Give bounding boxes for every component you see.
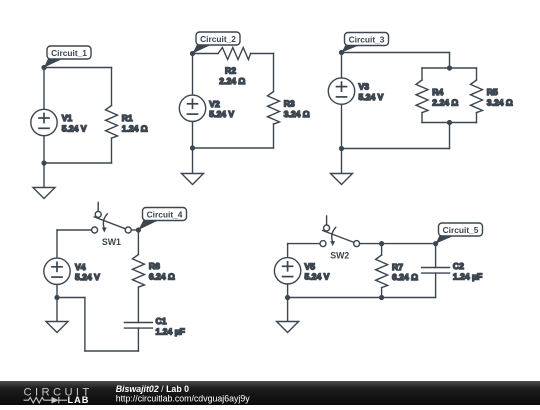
label R4 [432, 87, 443, 97]
wire parallel bottom bar [422, 122, 477, 124]
resistor R7 [376, 244, 388, 298]
svg-text:C1: C1 [156, 316, 167, 326]
junction bottom-left circuit3 [339, 146, 344, 151]
label V3 [359, 82, 370, 92]
value 5.24 V [75, 272, 100, 282]
node label Circuit_1 [44, 46, 91, 68]
svg-text:6.24 Ω: 6.24 Ω [392, 272, 418, 282]
wire top circuit1 [44, 67, 112, 69]
value 5.24 V [305, 272, 330, 282]
resistor R4 [416, 68, 428, 123]
svg-text:5.24 V: 5.24 V [305, 272, 330, 282]
wire bottom circuit5 [288, 297, 436, 299]
node label Circuit_4 [138, 208, 186, 231]
junction bottom-left circuit1 [41, 160, 46, 165]
svg-text:R5: R5 [487, 87, 498, 97]
voltage source V2 [179, 54, 205, 149]
voltage source V1 [31, 68, 57, 164]
svg-text:Circuit_4: Circuit_4 [147, 209, 183, 219]
label V5 [305, 261, 316, 271]
label R6 [149, 261, 160, 271]
svg-text:R1: R1 [122, 113, 133, 123]
capacitor C2 [422, 244, 450, 298]
voltage source V4 [44, 230, 70, 298]
wire V5 to switch [288, 243, 320, 245]
wire switch to R7 C2 [360, 243, 436, 245]
wire return path circuit4 [57, 298, 138, 352]
wire top-right circuit2 [251, 54, 274, 92]
svg-text:Circuit_3: Circuit_3 [349, 34, 385, 44]
svg-text:LAB: LAB [68, 395, 90, 405]
junction top-left circuit2 [190, 51, 195, 56]
svg-text:V4: V4 [75, 262, 86, 272]
value 3.24 Ω [487, 97, 513, 107]
wire top-left circuit2 [193, 53, 219, 55]
svg-text:V5: V5 [305, 261, 316, 271]
svg-text:SW2: SW2 [330, 250, 349, 260]
svg-text:V1: V1 [62, 113, 73, 123]
svg-text:2.24 Ω: 2.24 Ω [432, 97, 458, 107]
resistor R6 [132, 230, 144, 323]
junction parallel bottom [447, 120, 452, 125]
value 5.24 V [62, 123, 87, 133]
ground circuit3 [331, 149, 353, 185]
wire V4 to switch [57, 229, 92, 231]
svg-text:5.24 V: 5.24 V [209, 109, 234, 119]
svg-text:3.24 Ω: 3.24 Ω [487, 97, 513, 107]
junction bottom V5 [285, 295, 290, 300]
switch SW1 [92, 202, 132, 246]
value 2.24 Ω [432, 97, 458, 107]
svg-text:1.24 µF: 1.24 µF [453, 271, 482, 281]
ground circuit2 [182, 148, 204, 185]
label R1 [122, 113, 133, 123]
label C1 [156, 316, 167, 326]
svg-text:R3: R3 [284, 99, 295, 109]
label R3 [284, 99, 295, 109]
wire top circuit3 [342, 53, 450, 69]
logo resistor-diode symbol [24, 397, 68, 404]
svg-text:Circuit_5: Circuit_5 [443, 225, 479, 235]
svg-text:3.24 Ω: 3.24 Ω [284, 109, 310, 119]
junction parallel top [447, 65, 452, 70]
value 5.24 V [359, 92, 384, 102]
logo CIRCUIT text [24, 387, 93, 399]
junction bottom R7 [379, 295, 384, 300]
value 3.24 Ω [284, 109, 310, 119]
label R2 [225, 66, 236, 76]
wire bottom circuit2 [193, 147, 274, 149]
voltage source V5 [274, 244, 300, 298]
svg-text:V3: V3 [359, 82, 370, 92]
voltage source V3 [328, 53, 354, 149]
capacitor C1 [124, 323, 152, 352]
svg-text:5.24 V: 5.24 V [62, 123, 87, 133]
value 6.24 Ω [392, 272, 418, 282]
svg-text:Biswajit02 / Lab 0: Biswajit02 / Lab 0 [116, 384, 189, 394]
wire switch to node circuit4 [131, 229, 138, 231]
svg-text:http://circuitlab.com/cdvguaj6: http://circuitlab.com/cdvguaj6ayj9y [116, 394, 251, 404]
svg-text:SW1: SW1 [102, 237, 121, 247]
svg-text:Circuit_2: Circuit_2 [200, 34, 236, 44]
junction node circuit5 [433, 241, 438, 246]
logo LAB text [68, 395, 90, 405]
svg-text:5.24 V: 5.24 V [359, 92, 384, 102]
label V2 [209, 99, 220, 109]
label V4 [75, 262, 86, 272]
resistor R3 [268, 92, 280, 149]
junction bottom circuit4 [54, 295, 59, 300]
value 6.24 Ω [149, 271, 175, 281]
value 2.24 Ω [219, 76, 245, 86]
svg-text:V2: V2 [209, 99, 220, 109]
resistor R1 [106, 68, 118, 164]
svg-text:1.24 Ω: 1.24 Ω [122, 123, 148, 133]
svg-text:R7: R7 [392, 262, 403, 272]
footer url [116, 394, 251, 404]
value 1.24 µF [156, 326, 185, 336]
junction top-left circuit1 [41, 65, 46, 70]
wire bottom circuit1 [44, 162, 112, 164]
label V1 [62, 113, 73, 123]
value 1.24 Ω [122, 123, 148, 133]
label C2 [453, 261, 464, 271]
label R5 [487, 87, 498, 97]
svg-text:R2: R2 [225, 66, 236, 76]
ground circuit4 [46, 298, 68, 333]
value 1.24 µF [453, 271, 482, 281]
ground circuit5 [277, 298, 299, 333]
ground circuit1 [33, 163, 55, 199]
junction bottom-left circuit2 [190, 145, 195, 150]
svg-text:R4: R4 [432, 87, 443, 97]
wire bottom circuit3 [342, 123, 450, 149]
svg-text:Circuit_1: Circuit_1 [51, 48, 87, 58]
svg-text:1.24 µF: 1.24 µF [156, 326, 185, 336]
node label Circuit_5 [436, 223, 483, 244]
svg-text:6.24 Ω: 6.24 Ω [149, 271, 175, 281]
svg-text:C2: C2 [453, 261, 464, 271]
node label Circuit_3 [342, 33, 389, 53]
resistor R5 [471, 68, 483, 123]
wire parallel top bar [422, 67, 477, 69]
junction R7 top [379, 241, 384, 246]
label R7 [392, 262, 403, 272]
svg-text:2.24 Ω: 2.24 Ω [219, 76, 245, 86]
svg-text:R6: R6 [149, 261, 160, 271]
value 5.24 V [209, 109, 234, 119]
svg-text:5.24 V: 5.24 V [75, 272, 100, 282]
footer title Biswajit02 / Lab 0 [116, 384, 189, 394]
junction top-left circuit3 [339, 50, 344, 55]
resistor R2 [218, 48, 251, 60]
switch SW2 [320, 216, 360, 260]
junction node circuit4 [136, 227, 141, 232]
node label Circuit_2 [193, 32, 241, 54]
